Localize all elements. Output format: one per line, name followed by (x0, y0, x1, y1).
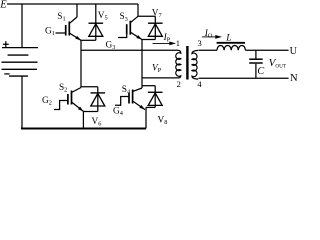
svg-text:IP: IP (163, 33, 171, 44)
svg-text:E: E (0, 0, 7, 11)
svg-text:S1: S1 (57, 12, 65, 23)
svg-text:S3: S3 (120, 12, 128, 23)
svg-text:G3: G3 (106, 41, 116, 52)
svg-text:3: 3 (198, 38, 202, 48)
svg-text:V8: V8 (158, 115, 168, 126)
svg-text:V5: V5 (98, 11, 108, 22)
svg-text:S2: S2 (59, 83, 67, 94)
svg-text:L: L (225, 33, 231, 43)
svg-text:N: N (290, 73, 298, 84)
svg-text:U: U (290, 46, 298, 57)
svg-text:4: 4 (197, 79, 202, 89)
svg-text:VP: VP (152, 63, 162, 74)
svg-text:V7: V7 (152, 8, 162, 19)
svg-text:C: C (257, 66, 264, 77)
svg-text:G4: G4 (113, 106, 124, 117)
svg-text:S4: S4 (122, 85, 131, 96)
svg-text:V6: V6 (92, 117, 102, 128)
svg-text:IO: IO (204, 29, 213, 40)
svg-text:1: 1 (176, 38, 180, 48)
svg-text:VOUT: VOUT (269, 57, 287, 70)
svg-text:G1: G1 (45, 27, 55, 38)
svg-text:G2: G2 (42, 96, 52, 107)
svg-text:2: 2 (177, 79, 181, 89)
